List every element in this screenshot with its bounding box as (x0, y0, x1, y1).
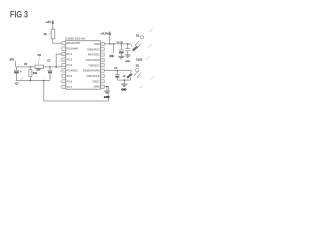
tick near C7 (21, 77, 24, 80)
svg-text:13: 13 (101, 70, 103, 72)
light arrows D2 (135, 70, 139, 75)
capacitor C1 (49, 67, 51, 70)
junction dot A2 (121, 43, 123, 45)
pin box left 3 (62, 53, 66, 56)
junction dot B2 (124, 79, 126, 81)
circle D2 (136, 69, 139, 72)
svg-text:P1.1: P1.1 (67, 52, 73, 56)
svg-text:1: 1 (63, 43, 64, 45)
pin box right 15 (100, 58, 104, 61)
svg-text:+: + (20, 70, 22, 74)
svg-text:GND: GND (94, 85, 100, 89)
capacitor C7 (electrolytic) (15, 67, 17, 70)
pin box left 2 (62, 47, 66, 50)
svg-text:DIO/DATA/PG: DIO/DATA/PG (83, 69, 100, 73)
ground symbol IC (106, 87, 108, 91)
svg-text:GND: GND (125, 61, 130, 63)
svg-text:P1.2: P1.2 (67, 58, 73, 62)
pin box right 13 (100, 69, 104, 72)
svg-text:C1: C1 (47, 60, 51, 62)
svg-text:15: 15 (101, 60, 103, 62)
capacitor C8 (electrolytic) (120, 44, 122, 50)
junction dot rail x56 (55, 66, 57, 68)
wire A (VDD rail) (104, 43, 130, 45)
svg-text:6: 6 (63, 70, 64, 72)
light arrows D1 (135, 41, 139, 46)
svg-text:RTCC/PGD: RTCC/PGD (86, 58, 100, 62)
pin box right 10 (100, 85, 104, 88)
svg-text:17: 17 (101, 49, 103, 51)
junction dot R2 bottom (30, 80, 32, 82)
svg-text:+3.3V: +3.3V (100, 31, 109, 35)
svg-text:P1.6: P1.6 (67, 79, 73, 83)
svg-text:TX/PGC1: TX/PGC1 (88, 63, 100, 67)
resistor R3 (series) (35, 65, 44, 68)
svg-text:8: 8 (60, 81, 61, 83)
net stub C11 (113, 44, 115, 53)
svg-text:DS89C1S2-SN: DS89C1S2-SN (65, 37, 85, 41)
photodiode D2 (126, 73, 132, 79)
photodiode D1 (132, 46, 138, 52)
junction dot B1 (117, 70, 119, 72)
scatter ticks right (149, 29, 153, 33)
svg-text:OSC1/CLK: OSC1/CLK (86, 74, 100, 78)
ground C9 (125, 54, 131, 56)
junction dot A3 (127, 43, 129, 45)
svg-text:4: 4 (63, 59, 64, 61)
svg-text:18: 18 (101, 44, 103, 46)
junction dot bottom (43, 80, 45, 82)
svg-text:BT1: BT1 (10, 59, 15, 62)
svg-text:P1.4/SCL: P1.4/SCL (67, 68, 79, 72)
svg-text:10k: 10k (33, 72, 38, 75)
pin box right 18 (100, 42, 104, 45)
IC U1 body (66, 41, 101, 89)
pin box right 14 (100, 64, 104, 67)
ground C8 (118, 55, 124, 57)
svg-text:9: 9 (63, 87, 64, 89)
junction dot pin10 (106, 86, 108, 88)
svg-text:11: 11 (101, 81, 103, 83)
svg-text:5: 5 (63, 65, 64, 67)
svg-text:2: 2 (63, 48, 64, 50)
svg-text:10: 10 (101, 86, 103, 88)
pin box left 1 (62, 42, 66, 45)
resistor R2 (29, 67, 31, 70)
wire R1 to pin 1 (52, 39, 54, 43)
svg-text:C8 C9: C8 C9 (117, 42, 124, 44)
svg-text:D1: D1 (136, 34, 140, 37)
svg-text:P1.0/AN0: P1.0/AN0 (67, 47, 79, 51)
pin box left 4 (62, 58, 66, 61)
svg-text:P1.7: P1.7 (67, 85, 73, 89)
svg-text:+1: +1 (123, 75, 126, 78)
svg-text:7: 7 (63, 76, 64, 78)
svg-text:14: 14 (101, 65, 103, 67)
ground symbol B (123, 80, 125, 84)
pin box left 7 (62, 74, 66, 77)
svg-text:8: 8 (63, 81, 64, 83)
left bottom wire (16, 80, 50, 82)
svg-text:P1.3: P1.3 (67, 63, 73, 67)
pin box right 16 (100, 53, 104, 56)
svg-text:P1.5: P1.5 (67, 74, 73, 78)
svg-text:GND: GND (121, 88, 127, 91)
pin box right 17 (100, 48, 104, 51)
svg-text:GND: GND (104, 96, 110, 99)
svg-text:C9: C9 (114, 68, 118, 70)
svg-text:3: 3 (63, 54, 64, 56)
svg-text:100: 100 (36, 68, 41, 71)
svg-text:OSC2: OSC2 (92, 79, 100, 83)
pin box left 8 (62, 80, 66, 83)
svg-text:R2: R2 (24, 64, 28, 66)
svg-text:9: 9 (60, 87, 61, 89)
ground rail B (117, 79, 130, 81)
svg-text:RA7/OSC: RA7/OSC (88, 53, 100, 57)
junction dot C1 (49, 66, 51, 68)
svg-text:D2: D2 (136, 65, 140, 68)
circle D1 (140, 36, 143, 39)
svg-text:2: 2 (60, 49, 61, 51)
pin box left 5 (62, 63, 66, 66)
svg-text:C1A2: C1A2 (136, 59, 143, 62)
capacitor C10 (electrolytic) (116, 71, 118, 75)
pin box right 12 (100, 74, 104, 77)
svg-text:16: 16 (101, 54, 103, 56)
pin box right 11 (100, 80, 104, 83)
svg-text:6: 6 (60, 70, 61, 72)
pin box left 6 (62, 69, 66, 72)
svg-text:1k: 1k (44, 32, 48, 36)
wire pin10 GND (104, 86, 109, 88)
resistor R1 (51, 29, 55, 39)
svg-text:R3: R3 (38, 54, 42, 57)
svg-text:C7: C7 (15, 82, 19, 85)
wire B (104, 70, 131, 72)
svg-text:7: 7 (60, 76, 61, 78)
svg-text:FIG 3: FIG 3 (10, 10, 28, 20)
svg-text:GND/PGC: GND/PGC (87, 47, 100, 51)
capacitor C9 (127, 44, 129, 49)
junction dot R2 (30, 66, 32, 68)
svg-text:12: 12 (101, 76, 103, 78)
svg-text:4: 4 (60, 59, 61, 61)
left rail (16, 66, 35, 68)
junction dot A0 (109, 43, 111, 45)
ground return wire (43, 81, 45, 102)
svg-text:C11: C11 (110, 55, 115, 58)
junction dot A1 (113, 43, 115, 45)
pin box left 9 (62, 85, 66, 88)
svg-text:VDD: VDD (94, 42, 100, 46)
svg-text:1: 1 (60, 43, 61, 45)
svg-text:MCLR/VPP: MCLR/VPP (67, 41, 81, 45)
wire pin3 left (56, 53, 62, 55)
node battery stub (15, 61, 17, 67)
svg-text:+3V: +3V (46, 20, 53, 24)
